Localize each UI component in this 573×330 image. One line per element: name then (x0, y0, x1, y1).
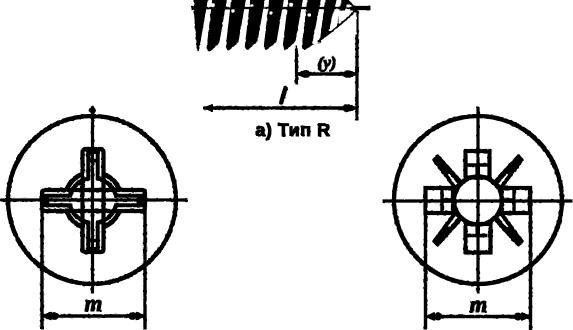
svg-text:m: m (85, 291, 103, 316)
crossbar right arm (137, 196, 139, 205)
thread flank white slashes (200, 0, 358, 48)
dimension line m left (42, 312, 145, 319)
thread mass (195, 0, 357, 51)
centerline horizontal right (383, 200, 572, 202)
central opening circle (454, 177, 502, 225)
crossbar top slot (468, 165, 487, 178)
extension line m right-2 (529, 188, 531, 329)
dimension line l (204, 105, 357, 112)
extension line m right-1 (424, 188, 426, 329)
diagonal wedge SW (433, 210, 464, 246)
extension line (y) left (295, 45, 297, 84)
centerline horizontal left (1, 199, 187, 201)
vertical arm band (83, 149, 104, 252)
left slot (426, 188, 454, 213)
flank outer NW (67, 174, 83, 190)
top slot (466, 151, 490, 178)
screw root line (192, 6, 370, 9)
extension line m left-1 (41, 190, 43, 329)
crossbar bottom arm (88, 239, 97, 241)
dimension line (y) (297, 71, 358, 78)
flank outer NE (104, 174, 120, 190)
svg-text:m: m (470, 292, 488, 317)
crossbar left arm (46, 196, 48, 205)
crossbar bottom slot (468, 224, 487, 236)
wing inner loop (45, 152, 142, 249)
flank outer SE (104, 211, 120, 227)
screw thread body (192, 0, 370, 51)
right slot (502, 188, 531, 213)
crossbar top arm (88, 159, 97, 161)
bottom slot (466, 224, 491, 253)
crossbar left slot (442, 190, 454, 211)
pozidriv recess (426, 151, 531, 253)
phillips recess cross (42, 149, 145, 252)
flank outer SW (67, 211, 83, 227)
diagonal wedge SE (493, 210, 524, 246)
dimension line m right (426, 313, 531, 320)
crossbar right slot (502, 190, 514, 211)
svg-text:а) Тип R: а) Тип R (255, 120, 330, 140)
head circle right (394, 116, 562, 284)
screw point taper line (317, 10, 356, 42)
label l (281, 89, 285, 103)
svg-text:(y): (y) (318, 53, 337, 72)
centerline vertical right (477, 107, 479, 293)
head circle left (8, 116, 176, 284)
horizontal arm band (42, 190, 145, 211)
centerline top blob left (90, 106, 96, 115)
diagonal wedge NE (493, 155, 524, 191)
diagonal wedge NW (433, 155, 464, 191)
extension line m left-2 (144, 190, 146, 329)
extension line screw tip (356, 11, 358, 120)
centerline vertical left (91, 107, 93, 293)
